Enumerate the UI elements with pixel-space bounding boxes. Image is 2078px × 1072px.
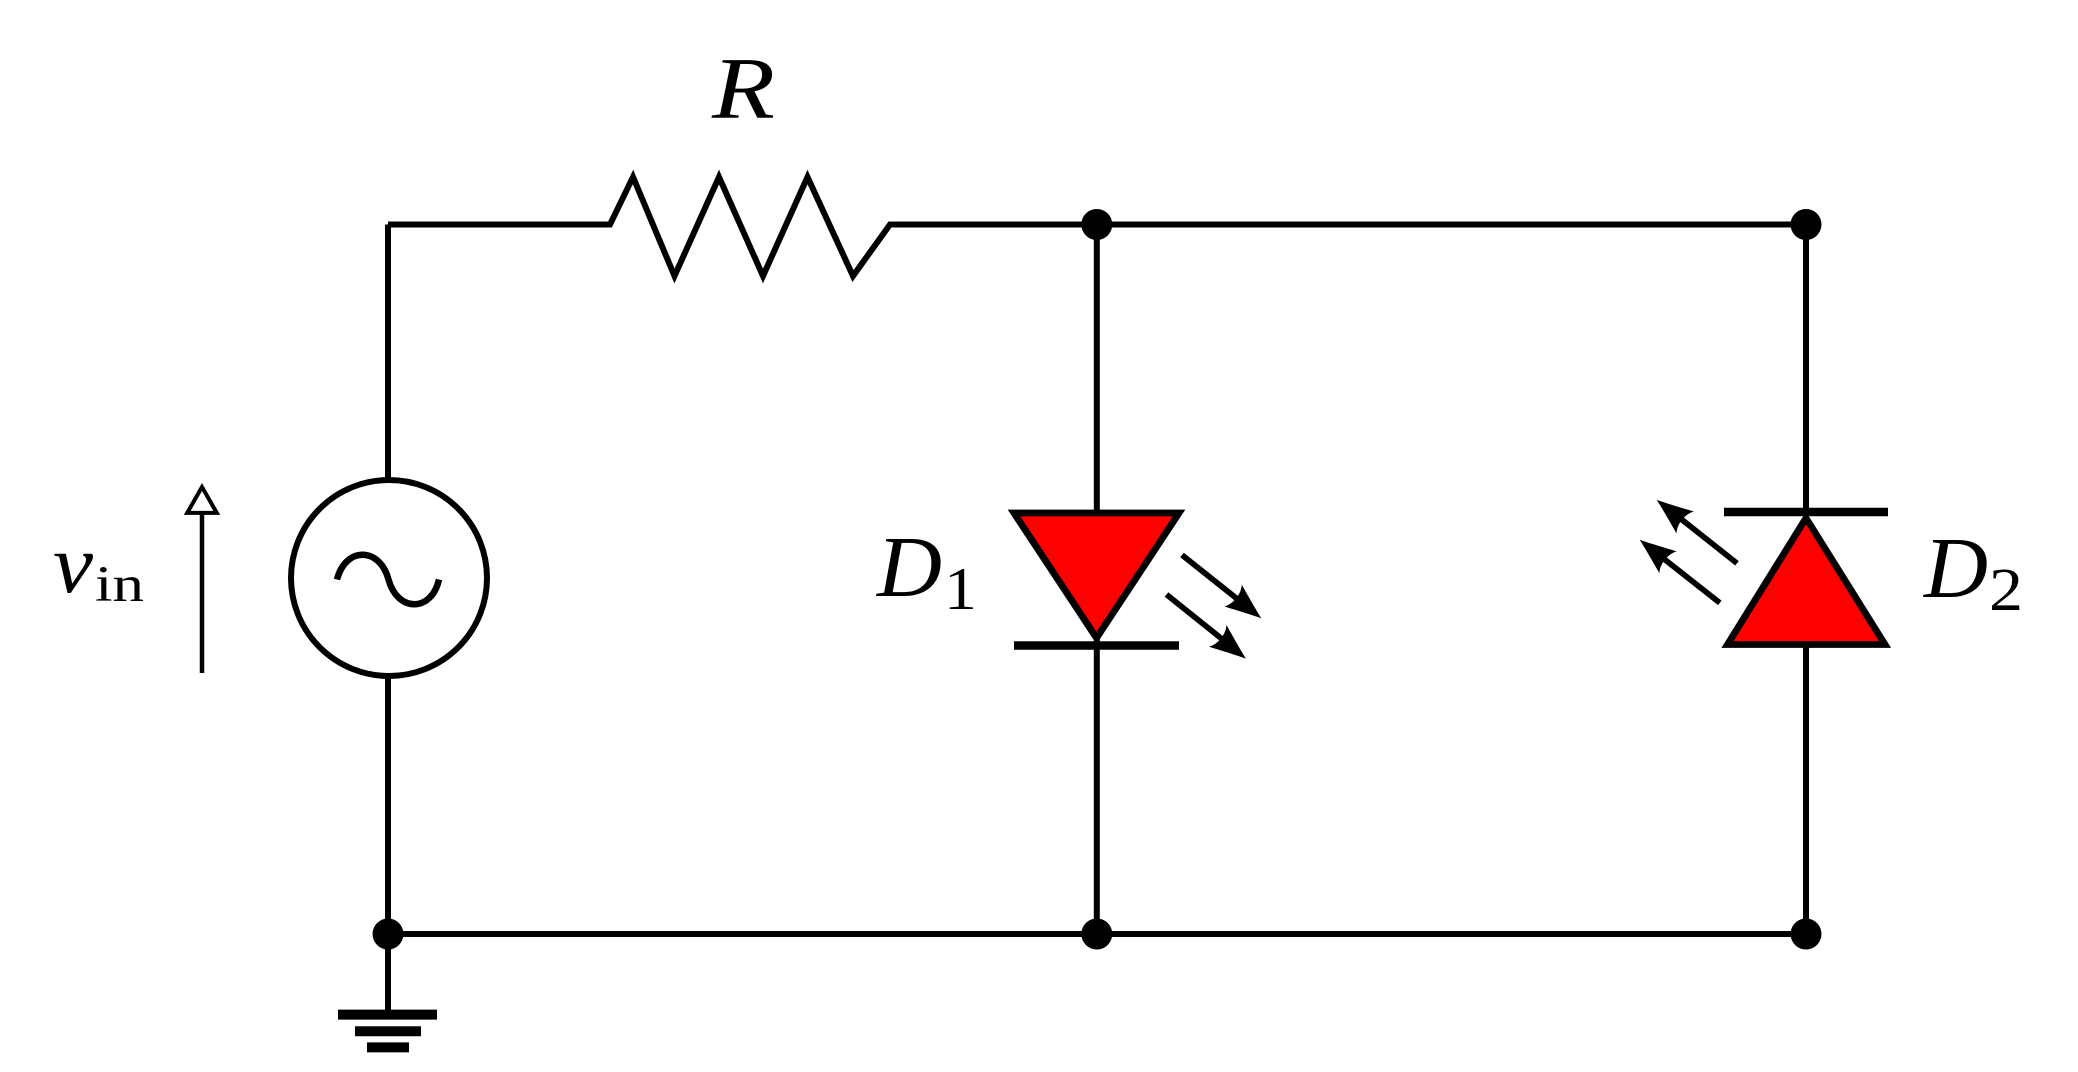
svg-text:in: in (95, 557, 144, 613)
svg-text:1: 1 (944, 556, 977, 622)
svg-text:v: v (53, 518, 94, 611)
svg-text:R: R (711, 41, 775, 138)
svg-text:D: D (876, 518, 942, 615)
svg-text:D: D (1923, 519, 1988, 616)
svg-text:2: 2 (1989, 557, 2023, 624)
